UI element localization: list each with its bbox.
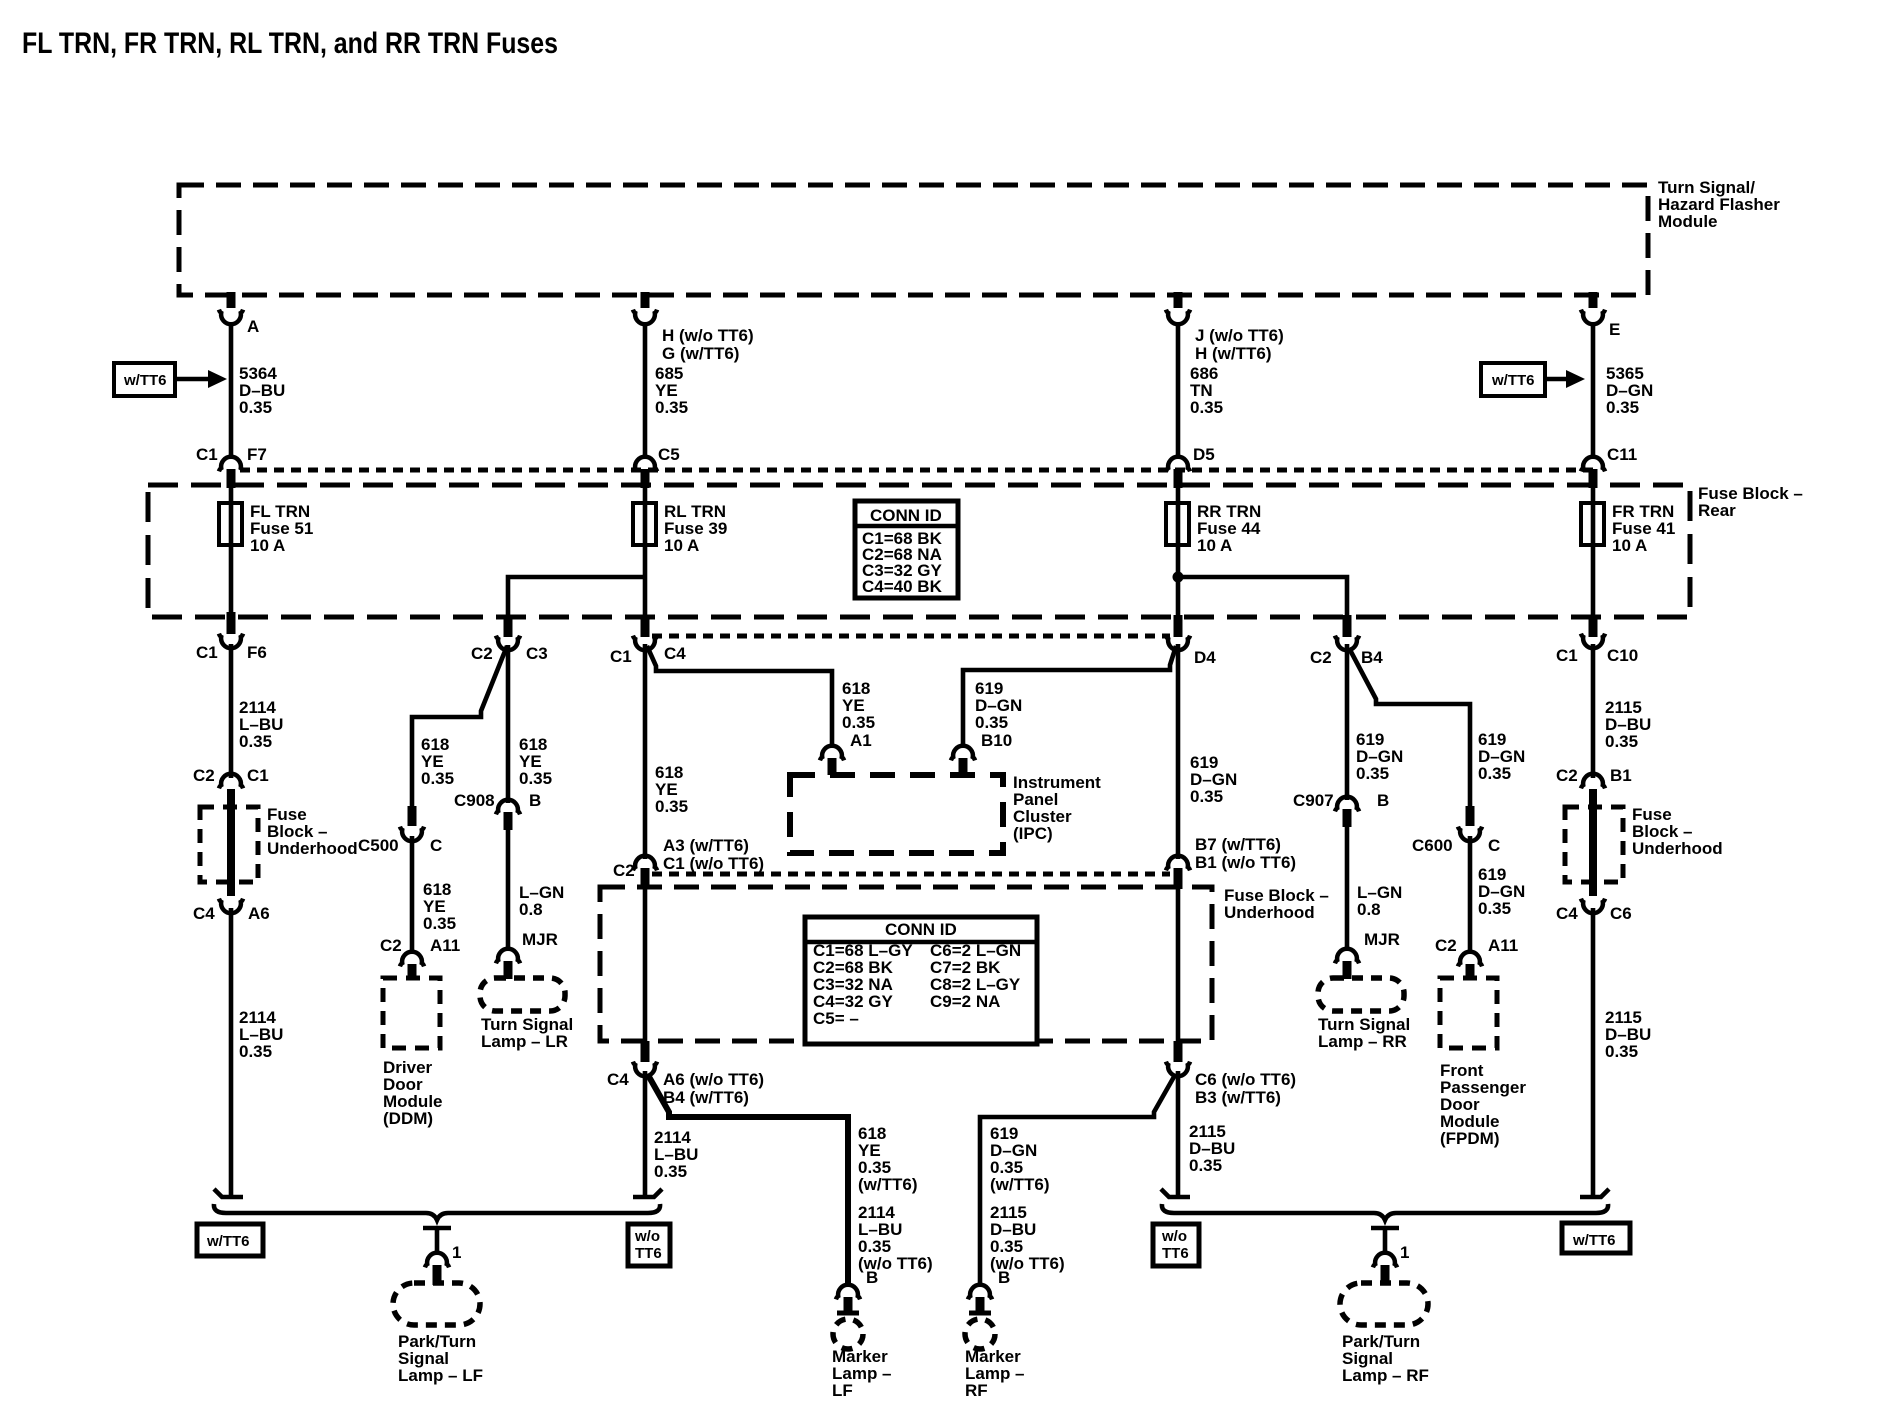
svg-text:C2: C2: [471, 644, 493, 663]
svg-text:C600: C600: [1412, 836, 1453, 855]
wire 2115 D-BU lower: [1591, 908, 1596, 1195]
svg-text:10 A: 10 A: [1197, 536, 1232, 555]
svg-text:J (w/o TT6): J (w/o TT6): [1195, 326, 1284, 345]
svg-text:10 A: 10 A: [1612, 536, 1647, 555]
wire B4 to C600 branch: [1349, 648, 1470, 806]
svg-text:C908: C908: [454, 791, 495, 810]
wire 618 YE wire2 middle: [643, 644, 648, 859]
svg-text:A3 (w/TT6): A3 (w/TT6): [663, 836, 749, 855]
wire L-GN 0.8 right: [1345, 825, 1350, 948]
svg-text:B: B: [998, 1268, 1010, 1287]
connector pin J/H: [1166, 292, 1284, 363]
svg-text:0.35: 0.35: [423, 914, 456, 933]
connector pin H/G: [633, 292, 754, 363]
svg-text:w/TT6: w/TT6: [123, 372, 167, 389]
svg-text:F6: F6: [247, 643, 267, 662]
svg-text:0.35: 0.35: [421, 769, 454, 788]
connector C1/C10: [1556, 615, 1638, 665]
svg-text:D5: D5: [1193, 445, 1215, 464]
svg-text:0.35: 0.35: [654, 1162, 687, 1181]
wire branch to Marker Lamp RF: [980, 1075, 1175, 1284]
svg-text:C3: C3: [526, 644, 548, 663]
connector B10 IPC: [951, 731, 1012, 775]
svg-text:C4: C4: [193, 904, 215, 923]
Park/Turn Signal Lamp RF box: [1340, 1283, 1428, 1325]
wire 619 D-GN wire3 middle: [1176, 644, 1181, 859]
connector B marker RF: [968, 1268, 1010, 1313]
svg-text:1: 1: [452, 1243, 461, 1262]
svg-text:10 A: 10 A: [250, 536, 285, 555]
connector C1/C4: [610, 615, 686, 666]
dotted connector row 3: [652, 872, 1170, 877]
svg-text:B3 (w/TT6): B3 (w/TT6): [1195, 1088, 1281, 1107]
svg-text:FL TRN, FR TRN, RL TRN, and RR: FL TRN, FR TRN, RL TRN, and RR TRN Fuses: [22, 27, 558, 60]
svg-text:(FPDM): (FPDM): [1440, 1129, 1499, 1148]
svg-text:B7 (w/TT6): B7 (w/TT6): [1195, 835, 1281, 854]
svg-text:C907: C907: [1293, 791, 1334, 810]
connector C6/B3: [1166, 1041, 1296, 1107]
svg-text:C1: C1: [1556, 646, 1578, 665]
Marker Lamp LF circle: [833, 1319, 863, 1349]
wire 2115 D-BU wire3 bottom: [1176, 1071, 1181, 1195]
wire 2114 L-BU lower: [229, 908, 234, 1195]
connector C4 A6/B4: [607, 1041, 764, 1107]
svg-text:A11: A11: [1488, 936, 1518, 955]
svg-text:C1: C1: [196, 643, 218, 662]
svg-text:C6: C6: [1610, 904, 1632, 923]
dotted connector row 2: [652, 634, 1170, 639]
Turn Signal Lamp RR box: [1318, 978, 1404, 1011]
svg-text:B: B: [529, 791, 541, 810]
svg-text:Underhood: Underhood: [267, 839, 358, 858]
svg-text:CONN ID: CONN ID: [885, 920, 957, 939]
w/TT6 tag bottom left: [197, 1224, 263, 1256]
svg-text:0.8: 0.8: [519, 900, 543, 919]
wire 685 YE: [643, 323, 648, 457]
wire RR TRN branch to B4: [1178, 577, 1347, 622]
connector C5: [633, 445, 680, 488]
wire1 end terminal: [214, 1189, 243, 1197]
svg-text:A6 (w/o TT6): A6 (w/o TT6): [663, 1070, 764, 1089]
svg-text:A1: A1: [850, 731, 872, 750]
connector C2/C3: [471, 615, 548, 663]
svg-text:MJR: MJR: [522, 930, 558, 949]
svg-text:C4: C4: [664, 644, 686, 663]
wire 2114 L-BU upper: [229, 644, 234, 778]
svg-text:0.35: 0.35: [1478, 764, 1511, 783]
svg-text:C2: C2: [380, 936, 402, 955]
svg-text:0.35: 0.35: [519, 769, 552, 788]
svg-text:B1: B1: [1610, 766, 1632, 785]
svg-text:B: B: [1377, 791, 1389, 810]
thick wire through underhood left: [227, 789, 235, 896]
Instrument Panel Cluster box: [790, 775, 1003, 853]
svg-text:B10: B10: [981, 731, 1012, 750]
svg-text:0.35: 0.35: [1606, 398, 1639, 417]
svg-text:Lamp – LF: Lamp – LF: [398, 1366, 483, 1385]
Fuse Block - Underhood left box: [200, 807, 258, 882]
svg-text:A: A: [247, 317, 259, 336]
wire 5364 D-BU: [229, 323, 234, 457]
Turn Signal/Hazard Flasher Module box: [179, 185, 1648, 295]
svg-text:B4 (w/TT6): B4 (w/TT6): [663, 1088, 749, 1107]
CONN ID table rear: [855, 501, 958, 598]
svg-text:0.35: 0.35: [1190, 398, 1223, 417]
svg-text:0.35: 0.35: [1190, 787, 1223, 806]
connector C2/C1 underhood left: [193, 766, 269, 788]
svg-text:C2: C2: [1310, 648, 1332, 667]
svg-text:A6: A6: [248, 904, 270, 923]
svg-text:Module: Module: [1658, 212, 1718, 231]
svg-text:0.35: 0.35: [1356, 764, 1389, 783]
svg-text:0.8: 0.8: [1357, 900, 1381, 919]
thick wire through underhood right: [1589, 789, 1597, 896]
connector B marker LF: [836, 1268, 878, 1313]
wire through FL TRN fuse: [229, 487, 234, 620]
svg-text:C4=40 BK: C4=40 BK: [862, 577, 943, 596]
svg-text:CONN ID: CONN ID: [870, 506, 942, 525]
svg-text:C6 (w/o TT6): C6 (w/o TT6): [1195, 1070, 1296, 1089]
svg-text:C5= –: C5= –: [813, 1009, 859, 1028]
wire L-GN 0.8 left: [506, 828, 511, 948]
connector C500/C: [358, 806, 442, 855]
svg-text:C1 (w/o TT6): C1 (w/o TT6): [663, 854, 764, 873]
connector C907/B: [1293, 791, 1389, 827]
connector C11: [1581, 445, 1637, 488]
svg-text:(w/TT6): (w/TT6): [858, 1175, 918, 1194]
svg-text:0.35: 0.35: [655, 797, 688, 816]
svg-text:1: 1: [1400, 1243, 1409, 1262]
svg-text:C10: C10: [1607, 646, 1638, 665]
svg-text:TT6: TT6: [635, 1245, 662, 1262]
wire 686 TN: [1176, 323, 1181, 457]
wire D4 to B10 branch: [963, 646, 1176, 745]
svg-text:MJR: MJR: [1364, 930, 1400, 949]
connector MJR right: [1335, 930, 1400, 979]
connector C2/A11 DDM: [380, 936, 460, 979]
wire3 through underhood center: [1176, 886, 1181, 1043]
Front Passenger Door Module box: [1440, 978, 1497, 1048]
svg-text:w/o: w/o: [634, 1228, 660, 1245]
wire branch to Marker Lamp LF: [648, 1075, 848, 1284]
svg-text:0.35: 0.35: [1189, 1156, 1222, 1175]
svg-text:(IPC): (IPC): [1013, 824, 1053, 843]
connector D5: [1166, 445, 1215, 488]
svg-text:E: E: [1609, 320, 1620, 339]
svg-text:TT6: TT6: [1162, 1245, 1189, 1262]
svg-text:0.35: 0.35: [239, 732, 272, 751]
svg-text:w/TT6: w/TT6: [1491, 372, 1535, 389]
svg-text:B1 (w/o TT6): B1 (w/o TT6): [1195, 853, 1296, 872]
svg-text:Lamp – LR: Lamp – LR: [481, 1032, 568, 1051]
svg-text:0.35: 0.35: [655, 398, 688, 417]
connector C4/A6 underhood left: [193, 899, 270, 923]
wire B4 down 619 D-GN: [1345, 644, 1350, 800]
svg-text:C1: C1: [196, 445, 218, 464]
Marker Lamp RF circle: [965, 1319, 995, 1349]
svg-text:C4: C4: [607, 1070, 629, 1089]
svg-text:0.35: 0.35: [1605, 732, 1638, 751]
svg-text:G (w/TT6): G (w/TT6): [662, 344, 739, 363]
svg-text:C2: C2: [1435, 936, 1457, 955]
wire C3 down 618 YE: [506, 645, 511, 803]
connector C908/B: [454, 791, 541, 830]
svg-text:0.35: 0.35: [239, 1042, 272, 1061]
w/TT6 tag left: [114, 363, 227, 396]
wire3 end terminal: [1161, 1189, 1190, 1197]
svg-text:C5: C5: [658, 445, 680, 464]
svg-text:Lamp – RR: Lamp – RR: [1318, 1032, 1407, 1051]
fuse RR TRN Fuse 44: [1166, 502, 1261, 555]
svg-text:(DDM): (DDM): [383, 1109, 433, 1128]
connector 1 park/turn RF: [1371, 1228, 1409, 1285]
svg-text:A11: A11: [430, 936, 460, 955]
svg-text:F7: F7: [247, 445, 267, 464]
wire 619 D-GN to A11: [1468, 836, 1473, 951]
svg-text:C2: C2: [193, 766, 215, 785]
connector A1 IPC: [820, 731, 872, 775]
connector MJR left: [496, 930, 558, 979]
wire C3 to C500 branch: [412, 646, 507, 774]
svg-text:0.35: 0.35: [1605, 1042, 1638, 1061]
w/o TT6 tag bottom wire3: [1153, 1224, 1199, 1266]
connector C2/A11 FPDM: [1435, 936, 1518, 979]
dotted connector row 1: [240, 468, 1593, 473]
svg-text:H (w/TT6): H (w/TT6): [1195, 344, 1272, 363]
w/o TT6 tag bottom wire2: [628, 1224, 670, 1266]
wire 618 YE to A11: [410, 774, 415, 806]
svg-text:0.35: 0.35: [975, 713, 1008, 732]
Fuse Block - Underhood right box: [1565, 807, 1623, 882]
svg-text:0.35: 0.35: [1478, 899, 1511, 918]
connector C2/B4: [1310, 615, 1383, 667]
svg-text:C9=2 NA: C9=2 NA: [930, 992, 1000, 1011]
w/TT6 tag bottom right: [1562, 1223, 1630, 1253]
svg-text:D4: D4: [1194, 648, 1216, 667]
wire 2114 L-BU wire2 bottom: [643, 1071, 648, 1195]
svg-text:0.35: 0.35: [842, 713, 875, 732]
connector 1 park/turn LF: [423, 1228, 461, 1285]
wire through FR TRN fuse: [1591, 487, 1596, 620]
w/TT6 tag right: [1481, 363, 1585, 396]
svg-text:H (w/o TT6): H (w/o TT6): [662, 326, 754, 345]
svg-text:B: B: [866, 1268, 878, 1287]
wire C4 to A1 branch: [647, 646, 832, 745]
svg-text:C500: C500: [358, 836, 399, 855]
svg-text:Lamp – RF: Lamp – RF: [1342, 1366, 1429, 1385]
CONN ID table center: [805, 917, 1037, 1044]
connector B7/B1: [1166, 835, 1296, 889]
connector C600/C: [1412, 806, 1500, 855]
connector C2/B1 underhood right: [1556, 766, 1632, 788]
wire through RR TRN fuse: [1176, 487, 1181, 620]
svg-text:(w/TT6): (w/TT6): [990, 1175, 1050, 1194]
svg-text:Rear: Rear: [1698, 501, 1736, 520]
Fuse Block - Rear box: [148, 485, 1690, 617]
svg-text:C11: C11: [1607, 445, 1637, 464]
Park/Turn Signal Lamp LF box: [393, 1283, 480, 1325]
connector C4/C6 underhood right: [1556, 899, 1632, 923]
svg-text:w/o: w/o: [1161, 1228, 1187, 1245]
svg-text:w/TT6: w/TT6: [1572, 1232, 1616, 1249]
svg-text:Underhood: Underhood: [1632, 839, 1723, 858]
svg-text:C2: C2: [613, 861, 635, 880]
connector C1/F7: [196, 445, 267, 488]
Fuse Block - Underhood center box: [600, 887, 1212, 1041]
svg-text:RF: RF: [965, 1381, 988, 1400]
connector D4: [1166, 615, 1216, 667]
junction dot RR TRN: [1173, 572, 1184, 583]
svg-text:C: C: [430, 836, 442, 855]
wire RL TRN branch to C3: [508, 577, 645, 622]
connector C2 A3/C1: [613, 836, 764, 889]
svg-text:LF: LF: [832, 1381, 853, 1400]
fuse RL TRN Fuse 39: [633, 502, 727, 555]
connector pin E: [1581, 292, 1620, 339]
Turn Signal Lamp LR box: [480, 978, 565, 1011]
wire2 through underhood center: [643, 886, 648, 1043]
svg-text:C2: C2: [1556, 766, 1578, 785]
connector pin A: [219, 292, 259, 336]
svg-text:C1: C1: [610, 647, 632, 666]
wire4 end terminal: [1580, 1189, 1609, 1197]
fuse FL TRN Fuse 51: [219, 502, 313, 555]
wire 2115 D-BU upper: [1591, 644, 1596, 778]
Driver Door Module box: [383, 978, 440, 1048]
fuse FR TRN Fuse 41: [1581, 502, 1675, 555]
svg-text:0.35: 0.35: [239, 398, 272, 417]
svg-text:w/TT6: w/TT6: [206, 1233, 250, 1250]
svg-text:10 A: 10 A: [664, 536, 699, 555]
svg-text:C1: C1: [247, 766, 269, 785]
svg-text:C: C: [1488, 836, 1500, 855]
wire2 end terminal: [633, 1189, 662, 1197]
brace left: [214, 1204, 660, 1220]
wire 5365 D-GN: [1591, 323, 1596, 457]
svg-text:C4: C4: [1556, 904, 1578, 923]
svg-text:B4: B4: [1361, 648, 1383, 667]
connector C1/F6: [196, 612, 267, 662]
wire through RL TRN fuse: [643, 487, 648, 620]
svg-text:Underhood: Underhood: [1224, 903, 1315, 922]
brace right: [1162, 1204, 1608, 1220]
